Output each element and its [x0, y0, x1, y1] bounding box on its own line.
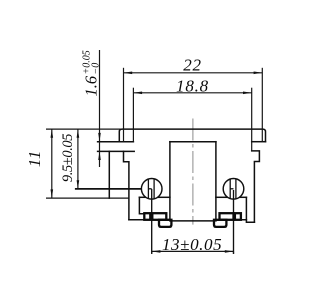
core window top edge	[170, 141, 216, 143]
arrow 9.5 bottom	[77, 180, 80, 189]
dim line 11	[51, 129, 53, 198]
ext 22 right / cap edge	[261, 68, 263, 142]
core window right edge	[215, 142, 217, 221]
right shoulder step	[252, 151, 260, 222]
right foot ledge line	[214, 219, 246, 221]
arrow 11 bottom	[51, 189, 54, 198]
arrow 1.6 lower (points up)	[98, 151, 101, 160]
ext 18.8 left / tower inner edge	[132, 88, 134, 142]
arrow 13 right	[225, 250, 234, 253]
ext bottom 11	[46, 197, 129, 199]
left ledge edge	[139, 196, 146, 198]
left pin head circle	[141, 179, 162, 200]
left foot ledge line	[129, 219, 166, 221]
right inner pad	[220, 213, 234, 220]
svg-text:18.8: 18.8	[176, 76, 209, 95]
left foot outer step	[139, 197, 144, 220]
right cap bottom edge	[252, 141, 266, 143]
left cap bottom edge	[98, 141, 134, 143]
right outer pad	[235, 213, 241, 220]
right ledge edge inner	[216, 196, 228, 198]
right pin head circle	[223, 179, 244, 200]
arrow 18.8 left	[133, 92, 142, 95]
dim line 18.8	[133, 92, 251, 94]
ext 13 right	[233, 251, 235, 254]
right ledge edge	[239, 196, 246, 198]
dim text 1.6 +0.05/-0 (rotated with tolerance stack)	[82, 50, 102, 96]
svg-text:13±0.05: 13±0.05	[162, 235, 222, 254]
dim line 13	[152, 250, 234, 252]
left outer pad	[144, 213, 150, 220]
svg-text:11: 11	[25, 150, 44, 167]
left pin head chords	[148, 179, 154, 199]
ext 13 left	[151, 251, 153, 254]
core window bottom plate	[171, 220, 214, 222]
left inner pad	[152, 213, 166, 220]
right pin tail	[233, 190, 235, 254]
right foot block	[214, 220, 226, 227]
svg-text:22: 22	[183, 56, 202, 75]
svg-text:9.5±0.05: 9.5±0.05	[60, 134, 76, 182]
dim line 22	[124, 72, 263, 74]
dimension extension lines	[46, 50, 262, 254]
dim line 1.6 leader	[99, 50, 101, 167]
left shoulder edge	[98, 150, 135, 152]
arrow 22 left	[124, 72, 133, 75]
part top flange with rounded outer corners	[119, 129, 265, 142]
ext 22 left / tower outer edge	[123, 68, 125, 142]
arrow 9.5 top	[77, 129, 80, 138]
solder pads (thick)	[144, 213, 241, 227]
svg-text:−0: −0	[90, 63, 101, 75]
arrow 22 right	[254, 72, 263, 75]
arrowheads	[51, 72, 263, 253]
svg-text:1.6: 1.6	[82, 75, 101, 96]
left body outer edge	[108, 151, 110, 198]
right foot outer wall	[246, 197, 254, 222]
dim line 9.5	[77, 129, 79, 189]
left step wall	[124, 151, 129, 219]
right pin head chords	[230, 179, 236, 199]
arrow 13 left	[152, 250, 161, 253]
arrow 1.6 upper (points down)	[98, 133, 101, 142]
left ledge edge inner	[158, 196, 170, 198]
left pin tail	[151, 189, 153, 254]
core window left edge	[169, 142, 171, 221]
ext 18.8 right / tower inner edge	[251, 88, 253, 151]
left foot block	[159, 220, 171, 227]
ext top shared 11/9.5	[46, 128, 121, 130]
ext 9.5 bottom (thick)	[75, 188, 141, 190]
arrow 18.8 right	[243, 92, 252, 95]
centerline vertical axis	[192, 119, 194, 225]
arrow 11 top	[51, 129, 54, 138]
